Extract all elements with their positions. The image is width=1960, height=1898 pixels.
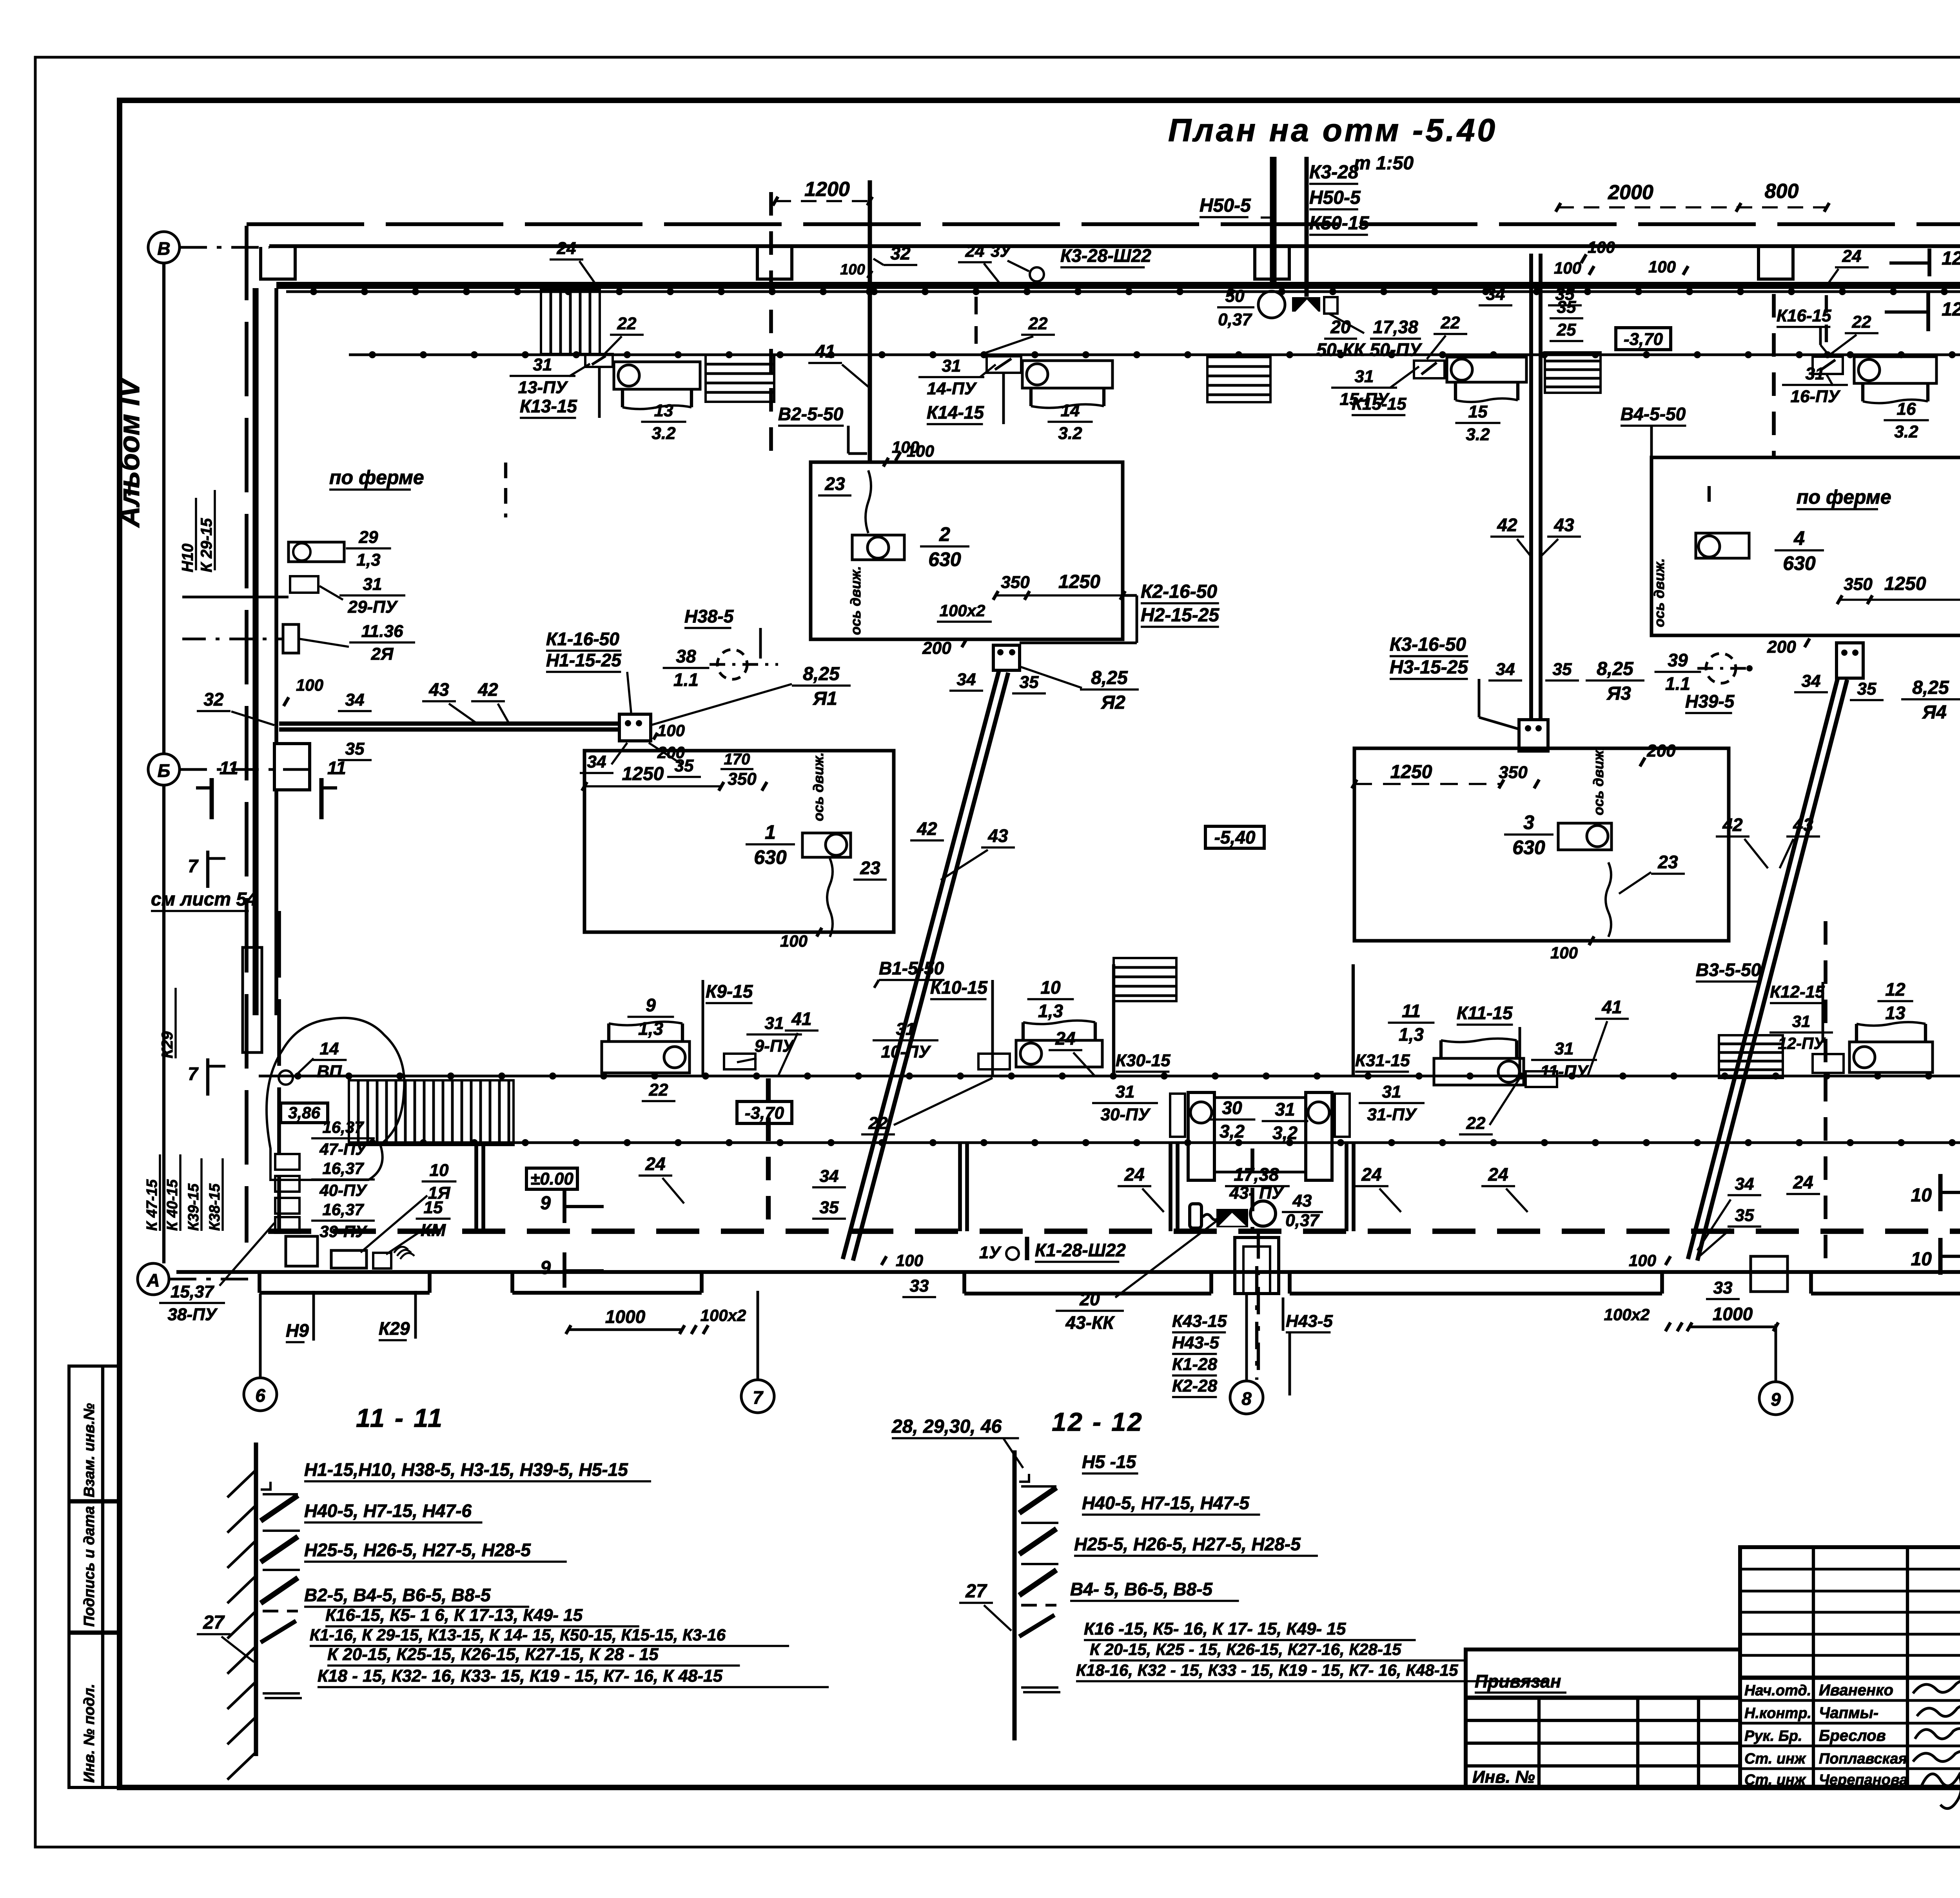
foundation slab right — [1288, 1272, 1292, 1294]
bottom band lower cable line with dots — [349, 1141, 1960, 1144]
svg-text:43: 43 — [1553, 515, 1574, 535]
svg-text:Инв. № подл.: Инв. № подл. — [81, 1684, 98, 1783]
svg-text:8,25: 8,25 — [1091, 668, 1128, 688]
svg-text:35: 35 — [345, 739, 365, 758]
svg-text:Н5 -15: Н5 -15 — [1082, 1452, 1136, 1472]
control box 16-PU — [1813, 357, 1843, 374]
axis 9 dashed line — [1824, 921, 1828, 1272]
svg-text:Я2: Я2 — [1100, 692, 1125, 713]
svg-text:Н10: Н10 — [179, 544, 196, 572]
svg-text:Поплавская: Поплавская — [1819, 1751, 1907, 1767]
svg-text:38-ПУ: 38-ПУ — [167, 1305, 218, 1324]
svg-text:22: 22 — [617, 314, 637, 333]
svg-text:14-ПУ: 14-ПУ — [927, 379, 977, 398]
vertical line through axis circles — [162, 263, 165, 754]
svg-text:43-КК: 43-КК — [1065, 1312, 1115, 1333]
foundation stub right of axis 9 — [1751, 1256, 1788, 1292]
svg-text:К43-15: К43-15 — [1172, 1312, 1227, 1331]
svg-text:17,38: 17,38 — [1373, 317, 1418, 337]
svg-text:К 40-15: К 40-15 — [164, 1179, 181, 1231]
dashed drop unit 16 — [1825, 295, 1828, 349]
svg-text:Н50-5: Н50-5 — [1309, 187, 1361, 208]
svg-text:8: 8 — [1241, 1388, 1252, 1409]
svg-text:10: 10 — [1040, 977, 1061, 998]
pump 3 motor — [1558, 823, 1612, 850]
svg-text:9: 9 — [646, 995, 656, 1015]
svg-text:24: 24 — [965, 241, 985, 261]
control box 15-PU — [1414, 361, 1445, 378]
foundation block A row — [286, 1236, 318, 1266]
bottom band upper cable line with dots — [259, 1075, 1960, 1078]
svg-text:43: 43 — [1292, 1191, 1312, 1210]
junction box Ya4 — [1837, 643, 1863, 678]
pump unit 12 — [1849, 1042, 1933, 1072]
svg-text:100: 100 — [840, 261, 865, 278]
svg-text:24: 24 — [1793, 1172, 1813, 1192]
svg-text:Взам. инв.№: Взам. инв.№ — [81, 1403, 98, 1497]
svg-text:100: 100 — [1648, 258, 1676, 276]
svg-text:630: 630 — [928, 548, 961, 570]
svg-text:13: 13 — [1885, 1003, 1906, 1023]
riser line at axis 7 top — [868, 180, 872, 462]
svg-text:по ферме: по ферме — [329, 466, 424, 488]
riser K31-15 — [1352, 964, 1355, 1076]
control box 13-PU — [585, 354, 613, 367]
svg-text:К3-28-Ш22: К3-28-Ш22 — [1060, 245, 1151, 266]
svg-text:25: 25 — [1557, 320, 1576, 339]
svg-text:Чапмы-: Чапмы- — [1819, 1704, 1878, 1722]
section 12-12 wall line — [1013, 1450, 1017, 1740]
svg-text:10: 10 — [1911, 1249, 1932, 1270]
svg-text:100х2: 100х2 — [1604, 1305, 1650, 1324]
svg-text:31: 31 — [942, 356, 961, 376]
svg-text:К16 -15, К5- 16, К 17- 15,: К16 -15, К5- 16, К 17- 15, К49- 15 — [1084, 1619, 1346, 1639]
axis circle B2 — [148, 754, 180, 785]
svg-text:Инв. №: Инв. № — [1472, 1767, 1535, 1787]
svg-text:11.36: 11.36 — [361, 622, 403, 641]
svg-text:42: 42 — [916, 818, 937, 839]
pilaster below B — [243, 947, 262, 1052]
svg-text:43- ПУ: 43- ПУ — [1229, 1183, 1284, 1203]
ladder block unit 15 right — [1545, 352, 1601, 393]
svg-text:22: 22 — [1466, 1114, 1486, 1133]
squiggle 23 bay 3 — [1606, 862, 1611, 937]
junction box Ya1 — [619, 714, 651, 741]
lower left wall dashed — [277, 911, 281, 1231]
svg-text:28, 29,30, 46: 28, 29,30, 46 — [891, 1416, 1002, 1437]
svg-text:Н25-5, Н26-5, Н27-5, Н28-5: Н25-5, Н26-5, Н27-5, Н28-5 — [1074, 1534, 1301, 1554]
svg-text:Н40-5, Н7-15, Н47-5: Н40-5, Н7-15, Н47-5 — [1082, 1493, 1250, 1513]
svg-text:ось движ.: ось движ. — [848, 566, 864, 635]
svg-text:1,3: 1,3 — [356, 550, 380, 570]
svg-text:100: 100 — [780, 932, 808, 950]
staircase hatch center — [1114, 958, 1176, 1001]
svg-text:16,37: 16,37 — [322, 1200, 364, 1219]
svg-text:35: 35 — [1020, 673, 1039, 692]
svg-text:Н25-5, Н26-5, Н27-5, Н28-5: Н25-5, Н26-5, Н27-5, Н28-5 — [304, 1540, 531, 1560]
staircase hatch bottom left — [349, 1080, 514, 1145]
svg-text:43: 43 — [1793, 815, 1813, 835]
svg-text:24: 24 — [645, 1154, 665, 1174]
svg-text:В4- 5, В6-5, В8-5: В4- 5, В6-5, В8-5 — [1070, 1579, 1213, 1599]
svg-text:100: 100 — [1550, 944, 1578, 962]
svg-text:К29: К29 — [159, 1031, 176, 1058]
svg-text:9: 9 — [540, 1257, 551, 1278]
svg-text:-3,70: -3,70 — [1624, 330, 1663, 349]
fan unit 50 — [1258, 291, 1285, 318]
svg-text:31: 31 — [1382, 1082, 1401, 1101]
svg-text:170: 170 — [724, 751, 750, 768]
svg-text:35: 35 — [1553, 660, 1572, 679]
svg-text:3.2: 3.2 — [1466, 425, 1490, 444]
svg-text:3.2: 3.2 — [1894, 422, 1918, 441]
boxes 1Ya KM — [331, 1250, 367, 1268]
svg-text:К 20-15, К25 - 15, К26-15, К: К 20-15, К25 - 15, К26-15, К27-16, К28-1… — [1090, 1640, 1401, 1658]
svg-text:350: 350 — [1499, 763, 1528, 782]
svg-text:24: 24 — [1124, 1164, 1144, 1185]
svg-text:15: 15 — [1468, 402, 1488, 421]
svg-text:Б: Б — [158, 760, 171, 781]
axis 8 dashed line — [1250, 1149, 1254, 1231]
svg-text:К15-15: К15-15 — [1352, 394, 1406, 414]
svg-text:1250: 1250 — [1884, 573, 1926, 594]
svg-text:К18 - 15, К32- 16, К33- 15,: К18 - 15, К32- 16, К33- 15, К19 - 15, К7… — [318, 1666, 723, 1686]
svg-text:ось движ.: ось движ. — [810, 752, 826, 821]
svg-text:24: 24 — [1055, 1028, 1075, 1049]
svg-text:16,37: 16,37 — [322, 1159, 364, 1178]
svg-text:100: 100 — [296, 676, 323, 694]
svg-text:31: 31 — [1355, 367, 1374, 386]
pump unit 16 — [1854, 357, 1936, 383]
hatch block near 12 — [1719, 1035, 1783, 1078]
svg-text:23: 23 — [824, 474, 845, 494]
bottom wall dashed edge — [268, 1228, 1960, 1234]
left stamp column boxes — [69, 1366, 120, 1787]
elevation -3.70 top right — [1616, 328, 1671, 350]
riser K3-28 — [1305, 157, 1309, 297]
svg-text:Н9: Н9 — [286, 1320, 309, 1341]
svg-text:К 20-15, К25-15, К26-15, К27: К 20-15, К25-15, К26-15, К27-15, К 28 - … — [327, 1645, 659, 1664]
svg-text:1,3: 1,3 — [638, 1018, 663, 1039]
svg-text:Альбом IV: Альбом IV — [113, 376, 145, 528]
svg-text:31: 31 — [1555, 1039, 1574, 1058]
svg-text:Я3: Я3 — [1606, 683, 1631, 704]
panel boxes 47 40 39 PU — [275, 1154, 299, 1170]
svg-text:35: 35 — [820, 1198, 839, 1217]
svg-text:31: 31 — [363, 575, 382, 594]
svg-text:Рук. Бр.: Рук. Бр. — [1744, 1728, 1802, 1744]
doorway stubs on top wall — [261, 247, 295, 279]
svg-text:200: 200 — [922, 639, 951, 658]
svg-text:К3-16-50: К3-16-50 — [1390, 634, 1466, 655]
svg-text:31: 31 — [533, 355, 552, 374]
svg-text:К50-15: К50-15 — [1309, 213, 1370, 234]
svg-text:±0.00: ±0.00 — [530, 1169, 573, 1189]
svg-text:3,86: 3,86 — [288, 1103, 320, 1122]
svg-text:8,25: 8,25 — [1597, 659, 1634, 679]
svg-text:100х2: 100х2 — [940, 601, 985, 620]
svg-text:22: 22 — [649, 1080, 668, 1100]
svg-text:22: 22 — [1028, 314, 1048, 333]
svg-text:К18-16, К32 - 15, К33 - 15,: К18-16, К32 - 15, К33 - 15, К19 - 15, К7… — [1076, 1661, 1458, 1679]
svg-text:12 - 12: 12 - 12 — [1052, 1407, 1143, 1436]
svg-text:12: 12 — [1885, 979, 1906, 1000]
svg-text:9: 9 — [1771, 1389, 1781, 1410]
hatch block unit 13 — [541, 290, 600, 354]
svg-text:22: 22 — [868, 1114, 888, 1133]
svg-text:100: 100 — [1588, 238, 1615, 256]
svg-text:31: 31 — [765, 1014, 784, 1033]
black triangle symbol 50-KK — [1294, 297, 1320, 312]
svg-text:29: 29 — [359, 528, 378, 547]
svg-text:16: 16 — [1897, 399, 1916, 419]
svg-text:1000: 1000 — [605, 1306, 646, 1327]
svg-text:39: 39 — [1668, 650, 1688, 670]
svg-text:50-КК: 50-КК — [1316, 339, 1366, 360]
left wall dashed outer — [245, 226, 249, 1243]
svg-text:43: 43 — [428, 679, 449, 700]
svg-text:200: 200 — [657, 743, 685, 762]
svg-text:В: В — [157, 238, 170, 259]
svg-text:3,2: 3,2 — [1220, 1121, 1245, 1141]
svg-text:В4-5-50: В4-5-50 — [1621, 404, 1686, 424]
svg-text:32: 32 — [890, 243, 911, 263]
svg-text:23: 23 — [860, 858, 880, 878]
svg-text:12: 12 — [1942, 248, 1960, 269]
svg-text:350: 350 — [1001, 573, 1030, 592]
axis circle 8 — [1230, 1381, 1263, 1414]
svg-text:1250: 1250 — [1390, 762, 1432, 782]
svg-text:41: 41 — [815, 341, 835, 361]
svg-text:Иваненко: Иваненко — [1819, 1682, 1893, 1699]
svg-text:31: 31 — [1116, 1082, 1135, 1101]
svg-text:К3-28: К3-28 — [1309, 162, 1359, 183]
svg-text:50-ПУ: 50-ПУ — [1370, 339, 1423, 360]
svg-text:350: 350 — [1844, 575, 1873, 594]
riser pair above bay 3 — [1529, 254, 1533, 720]
svg-text:34: 34 — [1486, 285, 1505, 304]
svg-text:31: 31 — [1792, 1012, 1811, 1031]
svg-text:13: 13 — [654, 401, 673, 420]
svg-text:630: 630 — [754, 846, 787, 868]
svg-text:15,37: 15,37 — [171, 1282, 215, 1301]
svg-text:10: 10 — [430, 1161, 449, 1180]
svg-text:14: 14 — [320, 1039, 339, 1058]
svg-text:30-ПУ: 30-ПУ — [1100, 1105, 1151, 1124]
svg-text:34: 34 — [1496, 660, 1515, 679]
svg-text:К1-28-Ш22: К1-28-Ш22 — [1035, 1240, 1126, 1260]
svg-text:Н39-5: Н39-5 — [1685, 691, 1735, 711]
svg-text:2Я: 2Я — [371, 644, 394, 664]
svg-text:Н43-5: Н43-5 — [1172, 1333, 1219, 1352]
svg-text:11: 11 — [220, 758, 238, 778]
svg-text:Н1-15-25: Н1-15-25 — [546, 650, 622, 670]
pump unit 13 — [614, 362, 700, 389]
svg-text:К38-15: К38-15 — [207, 1183, 223, 1231]
svg-text:22: 22 — [1441, 313, 1460, 332]
elevation -3.70 bottom left — [737, 1101, 792, 1123]
diagonal cable run 42-43 left — [843, 671, 999, 1259]
svg-text:Н43-5: Н43-5 — [1286, 1312, 1333, 1331]
svg-text:1250: 1250 — [1058, 572, 1100, 592]
svg-text:1,3: 1,3 — [1038, 1001, 1063, 1021]
box 50-PU — [1324, 297, 1338, 314]
pump 2 motor — [852, 535, 904, 560]
svg-text:Н3-15-25: Н3-15-25 — [1390, 657, 1468, 678]
foundation slab far right — [1809, 1272, 1813, 1294]
svg-text:20: 20 — [1079, 1289, 1100, 1309]
symbol VP circle — [279, 1071, 293, 1085]
svg-text:К2-16-50: К2-16-50 — [1141, 581, 1217, 602]
svg-text:100х2: 100х2 — [701, 1306, 746, 1325]
top wall outer dashed line — [247, 222, 1960, 226]
svg-text:42: 42 — [1722, 815, 1743, 835]
svg-text:11-ПУ: 11-ПУ — [1540, 1062, 1589, 1081]
svg-text:39-ПУ: 39-ПУ — [319, 1222, 368, 1241]
dashed drop 24 unit 14 — [975, 297, 978, 355]
compressor 30 rect — [1188, 1092, 1214, 1180]
svg-text:50: 50 — [1225, 287, 1245, 306]
trench double line bay 1 to wall — [279, 722, 619, 726]
svg-text:100: 100 — [657, 721, 685, 740]
svg-text:34: 34 — [345, 690, 365, 709]
compressor 31 rect — [1306, 1092, 1332, 1180]
svg-text:3: 3 — [1523, 811, 1534, 833]
box 43-PU — [1190, 1204, 1201, 1228]
fan circle 43 — [1250, 1201, 1276, 1226]
svg-text:27: 27 — [203, 1612, 225, 1633]
svg-text:Н1-15,Н10, Н38-5, Н3-15, Н39-5: Н1-15,Н10, Н38-5, Н3-15, Н39-5, Н5-15 — [304, 1459, 628, 1480]
svg-text:7: 7 — [188, 1063, 199, 1084]
svg-text:100: 100 — [896, 1251, 923, 1270]
svg-text:41: 41 — [1601, 997, 1622, 1017]
pump 1 motor — [802, 833, 851, 857]
pump 4 motor — [1696, 533, 1749, 558]
junction box Ya3 — [1519, 720, 1548, 751]
svg-text:11: 11 — [327, 758, 346, 778]
squiggle 23 bay 1 — [827, 858, 833, 937]
left wall thick vertical — [252, 288, 258, 796]
elevation 3.86 left — [281, 1103, 328, 1123]
svg-text:К1-16, К 29-15, К13-15, К 14-: К1-16, К 29-15, К13-15, К 14- 15, К50-15… — [310, 1626, 726, 1644]
duct H43 below wall — [1235, 1238, 1279, 1294]
svg-text:22: 22 — [1852, 312, 1871, 332]
control box 14-PU — [987, 356, 1021, 373]
blob cloud around VP — [267, 1018, 404, 1180]
svg-text:24: 24 — [1842, 247, 1862, 266]
svg-text:35: 35 — [1735, 1206, 1754, 1225]
svg-text:К14-15: К14-15 — [927, 402, 984, 423]
svg-text:6: 6 — [255, 1385, 265, 1406]
svg-text:11: 11 — [1402, 1001, 1421, 1021]
svg-text:К2-28: К2-28 — [1172, 1376, 1218, 1395]
svg-text:17,38: 17,38 — [1234, 1164, 1279, 1185]
svg-text:27: 27 — [965, 1581, 987, 1602]
wall posts lower band — [474, 1143, 478, 1231]
svg-text:В1-5-50: В1-5-50 — [879, 958, 944, 978]
svg-text:34: 34 — [1735, 1174, 1754, 1194]
pump bay 1 — [584, 751, 894, 932]
circle 3U — [1030, 267, 1044, 281]
svg-text:31: 31 — [1275, 1099, 1295, 1120]
axis circle A — [138, 1263, 169, 1295]
svg-text:Черепанова: Черепанова — [1819, 1772, 1907, 1788]
svg-text:2: 2 — [939, 523, 950, 545]
svg-text:Н40-5, Н7-15, Н47-6: Н40-5, Н7-15, Н47-6 — [304, 1501, 472, 1521]
svg-text:4: 4 — [1793, 527, 1805, 549]
svg-text:31-ПУ: 31-ПУ — [1367, 1105, 1417, 1124]
svg-text:1,3: 1,3 — [1399, 1024, 1424, 1045]
diagonal cable run 42-43 right — [1688, 678, 1838, 1259]
svg-text:Н50-5: Н50-5 — [1200, 195, 1251, 216]
svg-text:-5,40: -5,40 — [1214, 827, 1256, 847]
svg-text:План на отм -5.40: План на отм -5.40 — [1168, 113, 1497, 148]
svg-text:К12-15: К12-15 — [1770, 982, 1825, 1002]
svg-text:12-ПУ: 12-ПУ — [1778, 1034, 1826, 1052]
left wall inner vertical — [274, 288, 278, 743]
svg-text:К10-15: К10-15 — [930, 977, 988, 998]
title block left part — [1466, 1649, 1740, 1787]
svg-text:3У: 3У — [991, 242, 1012, 260]
svg-text:3,2: 3,2 — [1272, 1123, 1298, 1143]
svg-text:Ст. инж: Ст. инж — [1744, 1751, 1806, 1767]
axis circle 7 — [741, 1380, 774, 1413]
section 11 cut marks — [210, 778, 214, 819]
ladder block center top — [1207, 357, 1270, 402]
svg-text:К39-15: К39-15 — [185, 1183, 202, 1231]
svg-text:1У: 1У — [979, 1243, 1002, 1262]
svg-text:13-ПУ: 13-ПУ — [518, 378, 568, 397]
svg-text:В3-5-50: В3-5-50 — [1696, 960, 1761, 980]
svg-text:Н2-15-25: Н2-15-25 — [1141, 605, 1220, 626]
box 2Ya — [283, 624, 299, 653]
svg-text:43: 43 — [987, 826, 1008, 846]
svg-text:К29: К29 — [379, 1318, 410, 1339]
svg-text:по ферме: по ферме — [1797, 486, 1891, 508]
svg-text:К 47-15: К 47-15 — [144, 1179, 160, 1231]
second top cable line with dots — [349, 354, 1960, 356]
svg-text:Я1: Я1 — [812, 688, 837, 709]
svg-text:К16-15: К16-15 — [1777, 306, 1831, 325]
axis circle 9 — [1759, 1382, 1792, 1415]
foundation slab center — [962, 1272, 966, 1294]
compressor connecting frame — [1214, 1098, 1306, 1172]
svg-text:350: 350 — [728, 769, 757, 789]
svg-text:1: 1 — [765, 821, 776, 843]
svg-text:1200: 1200 — [804, 178, 850, 201]
pump unit 10 — [1016, 1040, 1102, 1067]
svg-text:15: 15 — [424, 1198, 443, 1217]
pump bay 4 — [1651, 457, 1960, 635]
top wall thick line — [276, 282, 1960, 289]
svg-text:47-ПУ: 47-ПУ — [319, 1140, 368, 1158]
svg-text:В2-5-50: В2-5-50 — [778, 404, 844, 424]
black triangle 43-KK — [1216, 1209, 1248, 1227]
foundation slab left 2 — [510, 1272, 514, 1293]
pump bay 2 — [811, 462, 1123, 639]
svg-text:11 - 11: 11 - 11 — [356, 1403, 444, 1432]
svg-text:0,37: 0,37 — [1218, 310, 1252, 329]
dashed circle 38 — [717, 650, 747, 679]
svg-text:Н38-5: Н38-5 — [684, 606, 734, 626]
svg-text:35: 35 — [1555, 285, 1575, 304]
svg-text:24: 24 — [1488, 1164, 1508, 1185]
svg-text:16-ПУ: 16-ПУ — [1790, 387, 1840, 406]
svg-text:12: 12 — [1942, 299, 1960, 320]
svg-text:16,37: 16,37 — [322, 1118, 364, 1136]
ladder block unit 14 — [706, 355, 774, 402]
riser H50-5 — [1270, 157, 1274, 288]
